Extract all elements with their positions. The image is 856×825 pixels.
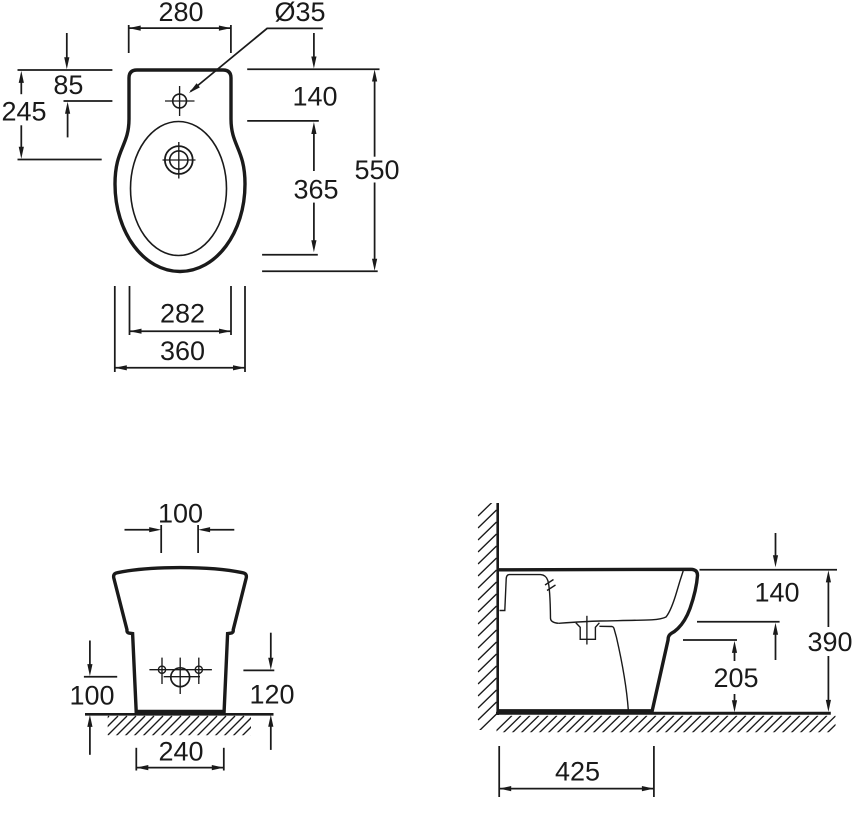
dim 550 bottom reference line — [262, 270, 378, 272]
dim 425 label — [555, 757, 600, 787]
svg-text:205: 205 — [713, 663, 758, 693]
dim 140 side label — [754, 578, 799, 608]
dim 360 line with arrows — [115, 365, 245, 370]
dim 425 extension lines — [499, 746, 654, 797]
svg-text:280: 280 — [158, 0, 203, 27]
svg-text:360: 360 — [160, 336, 205, 366]
dim 365 label — [293, 175, 338, 205]
dim 140 label — [292, 82, 337, 112]
front view: drain hole — [171, 668, 190, 687]
front view: floor line — [85, 713, 274, 716]
svg-text:550: 550 — [354, 155, 399, 185]
top view: bidet outer outline — [115, 70, 245, 272]
dim 280 line with arrows — [129, 26, 231, 31]
side view: wall line — [496, 503, 499, 715]
svg-text:100: 100 — [158, 499, 203, 529]
top view: faucet hole centerlines — [165, 86, 195, 116]
dim 550 down arrow — [372, 183, 377, 271]
dim 85 down arrow — [64, 33, 69, 69]
svg-text:140: 140 — [292, 82, 337, 112]
dim 140 bottom reference line — [247, 120, 319, 122]
dim 245 up arrow — [19, 71, 24, 94]
dim 550 up arrow — [372, 70, 377, 157]
dim 120 label — [249, 680, 294, 710]
dim 85 top reference line — [18, 69, 113, 71]
dim 360 label — [160, 336, 205, 366]
dim 282 label — [160, 299, 205, 329]
dim 245 bottom reference line — [18, 159, 102, 161]
side view: drain centerline — [586, 616, 588, 645]
dim 205 label — [713, 663, 758, 693]
dim 205 up arrow — [732, 641, 737, 661]
dim 85 up arrow — [65, 102, 70, 138]
front view: bidet outline — [114, 568, 247, 712]
top view: drain hole outer circle — [165, 146, 193, 174]
dim 280 label — [158, 0, 203, 27]
svg-text:390: 390 — [807, 627, 852, 657]
side view: top edge extension line — [700, 569, 838, 571]
svg-text:85: 85 — [53, 70, 83, 100]
dim 140 side reference line — [697, 621, 780, 623]
svg-text:100: 100 — [69, 681, 114, 711]
dim 390 label — [807, 627, 852, 657]
dim 100 left label — [69, 681, 114, 711]
dim 140 side down arrow — [773, 533, 778, 567]
dim 240 extension lines — [136, 748, 224, 771]
dim 100 left reference line — [84, 676, 117, 678]
top view: inner basin ellipse — [131, 122, 227, 256]
top view: drain hole centerlines — [163, 142, 196, 179]
dim 245 label — [1, 97, 46, 127]
side view: step right of drain — [599, 626, 628, 710]
dim 240 label — [158, 737, 203, 767]
dim 85 bottom reference line — [64, 100, 113, 102]
svg-text:365: 365 — [293, 175, 338, 205]
side view: wall hatching — [478, 498, 497, 732]
dim 100 top extension lines — [161, 525, 198, 553]
front view: hole centerlines — [149, 658, 212, 694]
dim 100 top arrows — [125, 527, 235, 532]
dim 240 line with arrows — [136, 765, 224, 770]
svg-text:120: 120 — [249, 680, 294, 710]
dim 120 down arrow — [268, 633, 273, 670]
svg-text:Ø35: Ø35 — [274, 0, 325, 27]
dim 245 down arrow — [19, 125, 24, 158]
dim 280 extension lines — [129, 25, 231, 53]
dim 365 bottom reference line — [262, 254, 318, 256]
front view: right fixing hole — [195, 666, 202, 673]
dim 365 down arrow — [311, 203, 316, 253]
dim 365 up arrow — [311, 122, 316, 171]
dim 425 line with arrows — [499, 786, 654, 791]
dim 140 side up arrow — [773, 623, 778, 660]
dim Ø35 label — [274, 0, 325, 27]
svg-text:140: 140 — [754, 578, 799, 608]
dim 100 left down arrow — [87, 641, 92, 677]
front view: left fixing hole — [158, 666, 165, 673]
dim 390 down arrow — [826, 656, 831, 712]
front view: floor hatching — [88, 716, 271, 737]
svg-text:245: 245 — [1, 97, 46, 127]
dim 85 label — [53, 70, 83, 100]
dim 205 down arrow — [732, 694, 737, 712]
side view: glaze tick marks — [545, 580, 556, 591]
dim 120 up arrow — [268, 715, 273, 750]
dim 205 reference line — [683, 639, 737, 641]
side view: basin bottom line — [559, 571, 683, 623]
dim 282 extension lines — [130, 286, 232, 335]
dim 120 reference line — [243, 669, 274, 671]
top view: faucet hole circle — [173, 94, 187, 108]
dim 140 down arrow — [311, 33, 316, 69]
dim 282 line with arrows — [130, 329, 232, 334]
dim 140 top reference line — [247, 68, 379, 70]
dim 100 left up arrow — [87, 715, 92, 755]
dim 100 top label — [158, 499, 203, 529]
dim Ø35 leader line — [189, 28, 323, 93]
top view: drain hole inner circle — [170, 151, 188, 169]
dim 390 up arrow — [826, 570, 831, 627]
dim 550 label — [354, 155, 399, 185]
side view: floor hatching — [494, 716, 845, 734]
side view: bidet outline — [498, 569, 698, 711]
svg-text:425: 425 — [555, 757, 600, 787]
svg-text:240: 240 — [158, 737, 203, 767]
side view: floor line — [496, 712, 831, 715]
svg-text:282: 282 — [160, 299, 205, 329]
side view: drain funnel — [576, 623, 600, 640]
side view: back inner profile — [500, 575, 559, 624]
dim 360 extension lines — [115, 286, 245, 372]
